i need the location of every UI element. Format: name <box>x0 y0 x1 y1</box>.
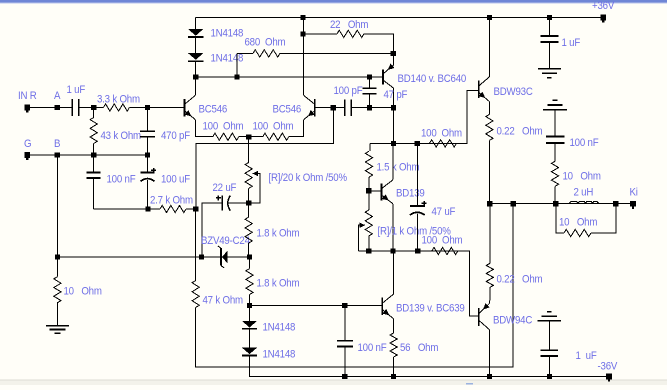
transistor Q5 BDW93C <box>478 80 480 98</box>
wire output <box>489 203 633 205</box>
wire 100nF corner <box>94 208 148 210</box>
node 22ohm tap <box>300 31 305 36</box>
bottom pane separator <box>0 379 667 380</box>
plus 100uF <box>151 169 156 171</box>
wire D3 top <box>249 305 251 321</box>
wire zobel stub <box>554 186 556 203</box>
wire bd139 base stub <box>369 190 382 192</box>
node out x513 <box>511 201 516 206</box>
svg-text:+36V: +36V <box>592 1 614 13</box>
wire bdw94 emitter <box>488 300 490 303</box>
svg-text:100 Ohm: 100 Ohm <box>253 121 294 133</box>
svg-text:2.7 k Ohm: 2.7 k Ohm <box>150 195 193 207</box>
svg-text:1N4148: 1N4148 <box>263 322 296 334</box>
wire fb bottom <box>196 204 513 367</box>
resistor R 43 k Ohm <box>93 108 95 118</box>
svg-text:100 Ohm: 100 Ohm <box>421 128 462 140</box>
wire 1.8k-2 top <box>249 257 251 269</box>
ground input <box>46 325 69 327</box>
svg-text:1N4148: 1N4148 <box>263 349 296 361</box>
node y251 x393 <box>391 248 396 253</box>
svg-text:1.8 k Ohm: 1.8 k Ohm <box>257 278 300 290</box>
wire 680 left stub <box>237 52 253 54</box>
transistor Q6 BDW94C <box>478 308 480 326</box>
wire y251 <box>358 250 469 252</box>
wire 680 right <box>280 52 393 54</box>
wire zener row <box>57 256 201 258</box>
node 100uF top <box>145 152 150 157</box>
wire to bdw93 base <box>456 91 478 144</box>
inductor L 2 uH <box>569 202 599 204</box>
node tail bottom <box>246 201 251 206</box>
wire ltp emitters mid-l <box>239 136 249 138</box>
node vas-out x393 y107 <box>391 105 396 110</box>
svg-text:100 nF: 100 nF <box>358 343 387 355</box>
svg-text:470 pF: 470 pF <box>161 131 190 143</box>
svg-text:47 pF: 47 pF <box>384 90 408 102</box>
svg-text:BDW94C: BDW94C <box>493 315 533 327</box>
resistor R 1.5 k Ohm <box>365 151 372 177</box>
transistor Q4 BD139 <box>381 183 383 200</box>
diode D2 1N4148 <box>188 53 203 60</box>
node 2.7k left <box>145 206 150 211</box>
svg-text:47 k Ohm: 47 k Ohm <box>203 295 243 307</box>
node diode-bottom <box>193 74 198 79</box>
node zener right <box>247 254 252 259</box>
svg-text:56 Ohm: 56 Ohm <box>400 343 438 355</box>
pot 1k wiper <box>359 222 365 228</box>
node zener row left <box>55 254 60 259</box>
svg-text:0.22 Ohm: 0.22 Ohm <box>497 274 543 286</box>
svg-text:1 uF: 1 uF <box>576 351 597 363</box>
resistor R 22 Ohm <box>337 30 364 37</box>
svg-text:BD139: BD139 <box>396 188 425 200</box>
resistor R 0.22 Ohm top <box>486 114 493 140</box>
svg-text:43 k Ohm: 43 k Ohm <box>101 131 141 143</box>
transistor Q3 BD140 v. BC640 <box>382 70 384 85</box>
svg-text:1.8 k Ohm: 1.8 k Ohm <box>257 228 300 240</box>
svg-text:100 pF: 100 pF <box>334 86 363 98</box>
terminal IN R <box>24 105 30 111</box>
node 100nF-b top <box>342 303 347 308</box>
svg-text:22 Ohm: 22 Ohm <box>330 20 368 32</box>
svg-text:1 uF: 1 uF <box>562 38 581 50</box>
capacitor C 100 nF lower <box>344 305 346 340</box>
wire 1.8k-1 bot <box>248 243 250 257</box>
svg-text:100 uF: 100 uF <box>161 174 190 186</box>
terminal -36V <box>606 374 612 380</box>
node rail x549 <box>547 15 552 20</box>
node -rail bdw94 <box>487 374 492 379</box>
wire bias y77 <box>196 76 383 78</box>
capacitor C 47 uF <box>416 143 418 206</box>
svg-text:1N4148: 1N4148 <box>211 28 244 40</box>
wire -36V rail <box>345 376 609 378</box>
node 43k top <box>91 105 96 110</box>
svg-text:10 Ohm: 10 Ohm <box>559 217 597 229</box>
wire between D1 D2 <box>195 38 197 54</box>
svg-text:100 nF: 100 nF <box>570 138 599 150</box>
resistor R 10 Ohm output <box>556 204 564 233</box>
diode D4 1N4148 <box>242 348 257 355</box>
transistor Q2 BC546 right <box>314 99 316 117</box>
svg-text:100 nF: 100 nF <box>107 174 136 186</box>
wire Q2 base <box>315 107 334 109</box>
wire vas y143 <box>370 142 467 144</box>
wire zobel mid <box>554 143 556 161</box>
node -rail 56ohm <box>391 374 396 379</box>
capacitor C 100 pF <box>362 87 376 89</box>
capacitor C 47 pF <box>344 99 346 116</box>
wire gnd row <box>27 154 147 156</box>
wire D4 to -rail <box>250 356 345 376</box>
resistor R 100 Ohm driver top <box>429 140 456 147</box>
wire bc639 emitter <box>393 319 395 333</box>
svg-text:BC546: BC546 <box>199 104 228 116</box>
svg-text:100 Ohm: 100 Ohm <box>203 121 244 133</box>
node 470pF top <box>145 105 150 110</box>
wire input 1 <box>27 107 72 109</box>
resistor R 56 Ohm <box>390 333 397 357</box>
wire 0.22 top to out <box>488 140 490 203</box>
svg-text:BZV49-C24: BZV49-C24 <box>201 236 250 248</box>
resistor R 10 Ohm gnd <box>56 257 58 277</box>
node zener mid <box>199 254 204 259</box>
svg-text:Ki: Ki <box>630 187 638 199</box>
svg-text:BDW93C: BDW93C <box>494 87 534 99</box>
svg-text:BD139 v. BC639: BD139 v. BC639 <box>396 303 465 315</box>
capacitor C 100 nF input <box>93 155 95 172</box>
wire bias lower y305 <box>250 304 383 306</box>
wire Q2 emitter <box>289 120 304 137</box>
ground 1uF top <box>538 68 561 70</box>
node bias lower <box>247 303 252 308</box>
resistor R 100 Ohm ltp left <box>213 133 239 140</box>
wire 1.5k bot <box>368 177 370 191</box>
wire input 2 <box>79 107 104 109</box>
wire input 3 <box>129 107 184 109</box>
capacitor C 100 nF zobel <box>546 135 565 137</box>
resistor R 47 k Ohm <box>192 281 199 308</box>
wire +36V rail <box>196 17 604 19</box>
wire Q2 collector <box>302 34 304 95</box>
svg-text:10 Ohm: 10 Ohm <box>64 286 102 298</box>
wire vas x393 drop <box>393 108 395 144</box>
node A <box>55 105 60 110</box>
resistor R 10 Ohm zobel <box>551 161 558 186</box>
wire bdw94 collector <box>488 330 490 377</box>
terminal G <box>24 152 30 158</box>
terminal +36V <box>600 15 606 21</box>
resistor R 100 Ohm driver bot <box>432 247 458 254</box>
node rail x303 <box>300 15 305 20</box>
resistor R 1.8 k Ohm lower <box>246 269 253 295</box>
node 680/22 junction <box>391 51 396 56</box>
wire comp left stub <box>333 107 344 109</box>
node comp left <box>331 105 336 110</box>
transistor Q1 BC546 left <box>184 99 186 117</box>
wire BD140 emitter <box>393 53 395 65</box>
svg-text:680 Ohm: 680 Ohm <box>245 37 286 49</box>
svg-text:B: B <box>54 139 61 151</box>
svg-text:1.5 k Ohm: 1.5 k Ohm <box>377 162 420 174</box>
svg-text:3.3 k Ohm: 3.3 k Ohm <box>97 94 140 106</box>
ground zobel inverted <box>543 109 567 111</box>
resistor R 1.8 k Ohm upper <box>245 217 252 243</box>
node vas x417 <box>415 141 420 146</box>
svg-text:0.22 Ohm: 0.22 Ohm <box>497 126 543 138</box>
svg-text:1 uF: 1 uF <box>67 85 86 97</box>
svg-text:BC546: BC546 <box>273 104 302 116</box>
resistor R 2.7 k Ohm <box>148 208 160 210</box>
wire 22ohm corner <box>364 34 393 54</box>
wire D3-D4 <box>249 330 251 348</box>
wire BD140 collector <box>393 88 395 108</box>
wire tail top <box>248 137 250 163</box>
node comp mid <box>367 105 372 110</box>
potentiometer R 1k <box>365 210 372 236</box>
node -rail 100nF <box>342 374 347 379</box>
capacitor C 470 pF <box>147 108 149 132</box>
node B <box>55 152 60 157</box>
capacitor C 22 uF <box>221 196 223 211</box>
plus 22uF <box>216 197 221 199</box>
node out x489 <box>487 201 492 206</box>
wire fb vertical <box>195 209 197 281</box>
pot 20k wiper <box>252 171 258 177</box>
wire B drop <box>56 155 58 257</box>
wire 1.5k top <box>369 143 371 151</box>
wire comp mid <box>369 107 393 109</box>
node bias x369 <box>367 74 372 79</box>
svg-text:22 uF: 22 uF <box>213 183 237 195</box>
resistor R 680 Ohm <box>253 50 280 57</box>
zener D BZV49-C24 <box>202 256 220 258</box>
diode D1 1N4148 <box>188 29 203 36</box>
node out x615 <box>613 201 618 206</box>
node 2.7k right <box>193 206 198 211</box>
node -rail 1uF <box>547 374 552 379</box>
wire bd139 emitter <box>392 204 394 251</box>
node bd139 base <box>366 188 371 193</box>
wire bdw93 emitter <box>488 102 490 115</box>
svg-text:[R]/20 k Ohm /50%: [R]/20 k Ohm /50% <box>269 173 347 185</box>
node y251 x368 <box>366 248 371 253</box>
wire bd139 collector <box>392 143 394 179</box>
svg-text:-36V: -36V <box>598 361 618 373</box>
node vas x393 <box>391 141 396 146</box>
svg-text:100 Ohm: 100 Ohm <box>422 235 463 247</box>
svg-text:A: A <box>54 91 61 103</box>
resistor R 100 Ohm ltp right <box>263 133 289 140</box>
ground 1uF bottom inverted <box>538 320 561 322</box>
wire 100pF top stub <box>368 77 370 88</box>
svg-text:BD140 v. BC640: BD140 v. BC640 <box>398 74 467 86</box>
svg-text:IN R: IN R <box>18 91 37 103</box>
capacitor C 1 uF input <box>71 99 73 116</box>
wire 680 left riser <box>236 53 238 77</box>
wire bc639 collector <box>393 251 395 294</box>
node 100nF top <box>91 152 96 157</box>
svg-text:47 uF: 47 uF <box>432 207 456 219</box>
svg-text:10 Ohm: 10 Ohm <box>563 171 601 183</box>
transistor Q7 BD139 v. BC639 <box>381 298 383 316</box>
wire D2 to node <box>195 62 197 78</box>
wire bdw93 collector <box>488 18 490 77</box>
wire 22uF right <box>229 202 249 204</box>
wire 56ohm bot <box>393 357 395 377</box>
svg-text:2 uH: 2 uH <box>574 187 594 199</box>
plus 47uF <box>422 202 427 204</box>
top window edge line <box>0 0 667 2</box>
capacitor C 1 uF bottom <box>548 321 550 351</box>
wire to bdw94 base <box>458 251 479 316</box>
wire ltp emitters mid-r <box>249 136 263 138</box>
wire Q2 coll to rail <box>302 18 304 34</box>
wire Q1 emitter <box>196 120 213 137</box>
resistor R 0.22 Ohm bottom <box>489 204 491 264</box>
node tail <box>246 134 251 139</box>
wire 22uF left <box>202 203 223 257</box>
capacitor C 1 uF top <box>548 18 550 37</box>
wire 1.8k-2 bot <box>249 295 251 306</box>
svg-text:1N4148: 1N4148 <box>211 53 244 65</box>
node y251 x417 <box>415 248 420 253</box>
capacitor C 100 uF <box>147 155 149 172</box>
wire comp drop <box>196 108 333 209</box>
wire tail bottom <box>248 188 250 203</box>
wire diode chain top <box>195 18 197 30</box>
resistor R 3.3 k Ohm <box>103 104 129 111</box>
wire 22ohm left stub <box>303 33 337 35</box>
terminal Ki <box>630 201 636 207</box>
wire 100pF bottom stub <box>368 94 370 108</box>
node out x555 <box>553 201 558 206</box>
potentiometer R 20k <box>245 162 252 188</box>
wire comp cap right <box>351 107 369 109</box>
svg-text:G: G <box>24 139 31 151</box>
node bias x237 <box>234 74 239 79</box>
wire zobel top <box>554 110 556 137</box>
wire 1.8k-1 top <box>248 203 250 217</box>
wire Q1 collector <box>195 77 197 95</box>
diode D3 1N4148 <box>242 321 257 328</box>
node rail x489 <box>487 15 492 20</box>
